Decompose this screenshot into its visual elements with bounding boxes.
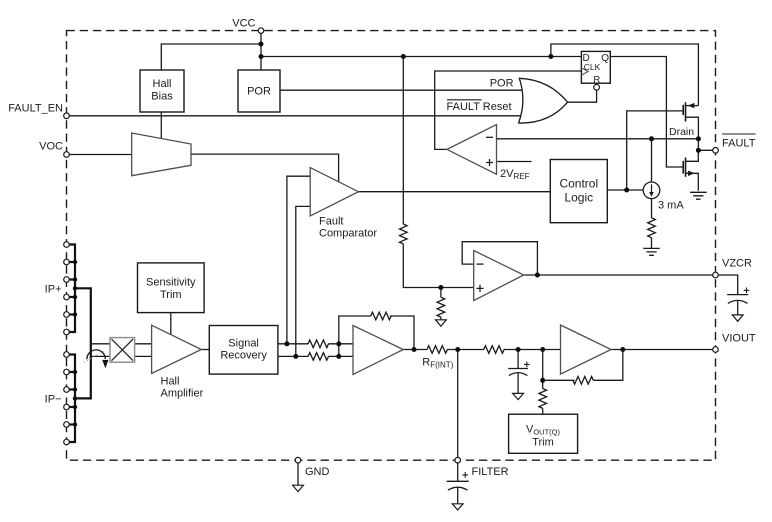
svg-text:FAULT Reset: FAULT Reset [447, 101, 512, 113]
svg-text:VZCR: VZCR [722, 258, 752, 270]
svg-text:CLK: CLK [584, 62, 601, 72]
svg-text:VOC: VOC [39, 140, 63, 152]
svg-text:FILTER: FILTER [472, 466, 509, 478]
svg-text:POR: POR [490, 77, 514, 89]
svg-text:Signal: Signal [228, 338, 259, 350]
svg-text:VCC: VCC [232, 18, 255, 30]
svg-text:IP−: IP− [45, 394, 62, 406]
svg-text:IP+: IP+ [45, 284, 62, 296]
svg-text:FAULT_EN: FAULT_EN [8, 103, 63, 115]
svg-text:Drain: Drain [669, 126, 694, 138]
svg-text:POR: POR [247, 86, 271, 98]
svg-text:FAULT: FAULT [722, 138, 756, 150]
svg-text:Fault: Fault [319, 215, 343, 227]
svg-text:Trim: Trim [532, 437, 554, 449]
svg-text:Amplifier: Amplifier [161, 388, 204, 400]
svg-text:Comparator: Comparator [319, 228, 377, 240]
svg-text:R: R [593, 74, 600, 85]
svg-text:Control: Control [559, 177, 598, 191]
svg-text:Recovery: Recovery [220, 350, 267, 362]
svg-text:Sensitivity: Sensitivity [146, 277, 196, 289]
svg-text:Q: Q [601, 53, 609, 64]
svg-text:Hall: Hall [161, 376, 180, 388]
svg-text:Logic: Logic [564, 191, 593, 205]
svg-text:3 mA: 3 mA [658, 200, 684, 212]
svg-text:Trim: Trim [160, 289, 182, 301]
svg-text:GND: GND [305, 466, 330, 478]
svg-text:Bias: Bias [151, 90, 173, 102]
svg-text:VIOUT: VIOUT [722, 333, 756, 345]
svg-text:Hall: Hall [153, 78, 172, 90]
